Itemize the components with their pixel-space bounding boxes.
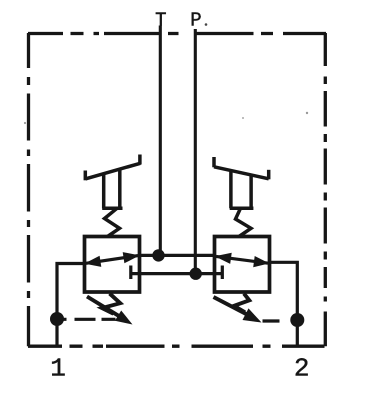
svg-text:1: 1: [50, 354, 66, 384]
svg-text:P: P: [190, 9, 201, 31]
svg-text:T: T: [155, 9, 166, 31]
svg-text:2: 2: [294, 354, 310, 384]
